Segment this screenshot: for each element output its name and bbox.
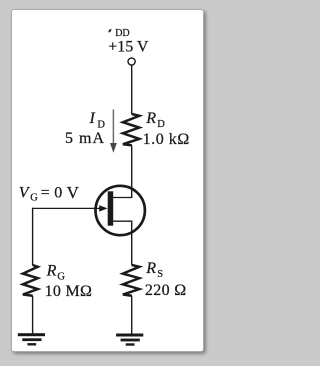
svg-text:I: I xyxy=(89,110,96,127)
JFET Q1 circle xyxy=(96,186,145,235)
svg-text:+15 V: +15 V xyxy=(108,39,149,56)
svg-text:R: R xyxy=(145,260,156,277)
svg-text:R: R xyxy=(145,110,156,127)
resistor RD xyxy=(123,114,139,145)
svg-text:5 mA: 5 mA xyxy=(65,130,105,147)
label 5 mA xyxy=(65,130,105,147)
svg-text:0: 0 xyxy=(54,185,62,202)
label RS xyxy=(145,260,163,280)
JFET source lead xyxy=(111,220,132,222)
svg-text:1.0 kΩ: 1.0 kΩ xyxy=(143,131,190,148)
svg-text:G: G xyxy=(30,193,38,204)
svg-text:V: V xyxy=(19,185,31,202)
svg-text:=: = xyxy=(41,185,50,202)
svg-text:D: D xyxy=(97,119,105,130)
JFET drain lead xyxy=(111,197,132,199)
resistor RS xyxy=(123,265,139,296)
svg-text:V: V xyxy=(67,183,80,202)
label RD xyxy=(145,110,165,130)
resistor RG xyxy=(23,265,38,296)
power terminal VDD xyxy=(128,58,135,65)
wire RS to ground xyxy=(131,296,133,334)
label 220 ohm xyxy=(145,282,187,299)
svg-text:D: D xyxy=(157,119,165,130)
svg-text:S: S xyxy=(157,269,163,280)
label VDD (V cropped to bottom tip) xyxy=(108,28,130,39)
label ID xyxy=(89,110,106,130)
ground (right) xyxy=(116,334,143,346)
current arrow ID xyxy=(110,109,117,152)
svg-text:DD: DD xyxy=(115,28,129,39)
ground (left) xyxy=(18,333,45,345)
label +15 V xyxy=(108,39,149,56)
svg-text:10 MΩ: 10 MΩ xyxy=(45,283,93,300)
wire RD to JFET drain xyxy=(131,145,133,197)
svg-text:220 Ω: 220 Ω xyxy=(145,282,187,299)
wire VDD to RD xyxy=(131,65,133,114)
label 1.0 kohm xyxy=(143,131,190,148)
label VG = 0 V xyxy=(19,183,80,204)
svg-text:G: G xyxy=(57,271,65,282)
svg-text:R: R xyxy=(46,262,57,279)
label RG xyxy=(46,262,66,282)
JFET gate lead with arrowhead xyxy=(33,205,108,211)
wire JFET source to RS xyxy=(131,221,133,265)
wire RG to ground xyxy=(32,296,34,334)
JFET channel bar xyxy=(108,191,114,225)
wire gate node down to RG xyxy=(32,208,34,266)
label 10 Mohm xyxy=(45,283,93,300)
